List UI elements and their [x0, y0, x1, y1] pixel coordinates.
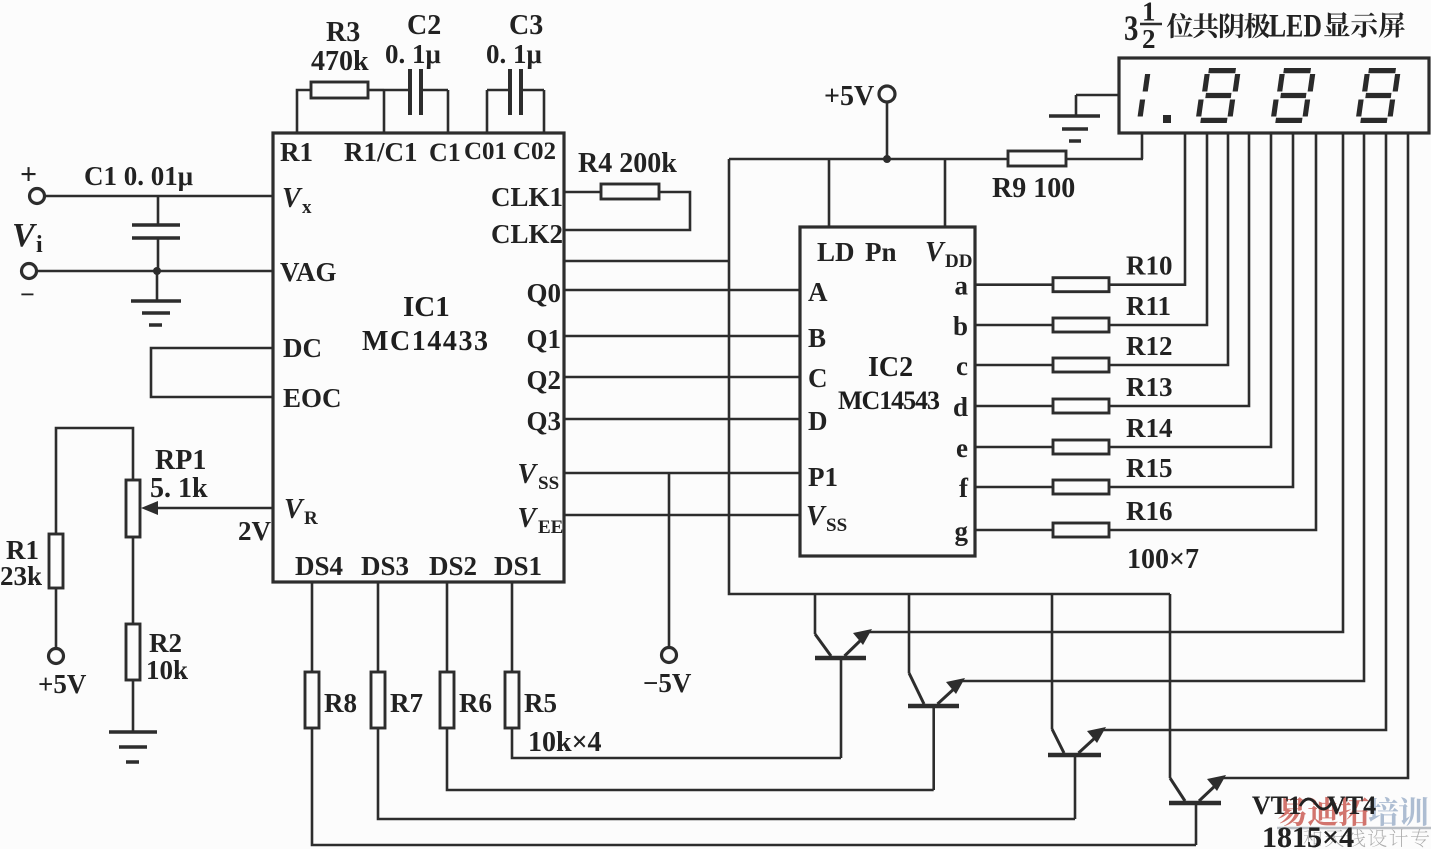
transistor Q1 VT1 — [815, 594, 872, 758]
svg-text:P1: P1 — [808, 462, 838, 492]
terminal + (Vi positive) — [20, 158, 45, 204]
svg-text:DS1: DS1 — [494, 551, 542, 581]
svg-text:C2: C2 — [407, 10, 441, 41]
node Vi — [12, 217, 43, 258]
wire — [729, 159, 1170, 594]
terminal +5V — [824, 81, 895, 159]
svg-text:e: e — [956, 433, 968, 463]
svg-text:VT1: VT1 — [1252, 791, 1301, 820]
svg-text:RP1: RP1 — [155, 445, 206, 476]
wire — [962, 133, 1364, 681]
svg-text:R8: R8 — [324, 688, 357, 718]
svg-text:R15: R15 — [1126, 453, 1173, 483]
svg-text:R: R — [304, 508, 318, 529]
potentiometer RP1 — [126, 445, 208, 624]
label VT1~VT4 — [1252, 791, 1376, 820]
junction — [153, 267, 161, 275]
svg-text:VAG: VAG — [280, 257, 337, 287]
svg-text:V: V — [282, 183, 303, 214]
svg-text:+5V: +5V — [824, 81, 874, 112]
svg-text:MC14433: MC14433 — [362, 326, 488, 357]
svg-text:C1: C1 — [429, 138, 461, 167]
svg-text:d: d — [953, 392, 968, 422]
resistor R11 — [975, 133, 1207, 332]
svg-text:1: 1 — [1142, 0, 1156, 27]
terminal − (Vi negative) — [20, 264, 37, 310]
wire — [944, 159, 947, 227]
svg-text:−: − — [20, 280, 35, 309]
svg-text:SS: SS — [826, 515, 847, 536]
wire — [564, 260, 729, 263]
resistor R10 — [975, 133, 1185, 292]
svg-text:R3: R3 — [326, 17, 360, 48]
wire — [564, 418, 800, 421]
svg-text:3: 3 — [1124, 9, 1138, 49]
label VT1~VT4 — [1252, 791, 1376, 820]
svg-text:100×7: 100×7 — [1127, 544, 1199, 575]
wire — [564, 376, 800, 379]
wire — [151, 348, 273, 397]
svg-text:c: c — [956, 351, 968, 381]
svg-text:470k: 470k — [311, 46, 369, 77]
svg-text:CLK1: CLK1 — [491, 182, 563, 212]
resistor R14 — [975, 133, 1271, 454]
wire — [141, 501, 273, 546]
wire — [729, 158, 1008, 161]
svg-text:f: f — [959, 473, 969, 503]
svg-text:IC1: IC1 — [403, 291, 450, 323]
resistor R6 — [440, 582, 934, 790]
wire — [564, 472, 800, 475]
svg-text:DC: DC — [283, 333, 322, 363]
svg-text:R1/C1: R1/C1 — [344, 137, 418, 167]
svg-text:V: V — [517, 459, 538, 490]
svg-text:R4 200k: R4 200k — [578, 148, 677, 179]
svg-text:R11: R11 — [1126, 291, 1171, 321]
svg-text:MC14543: MC14543 — [838, 386, 940, 415]
resistor R12 — [975, 133, 1228, 372]
wire — [1103, 133, 1386, 730]
resistor R13 — [975, 133, 1249, 413]
svg-text:C02: C02 — [513, 138, 556, 165]
ground — [131, 271, 181, 325]
wire — [564, 335, 800, 338]
svg-text:−5V: −5V — [643, 668, 692, 698]
svg-text:EE: EE — [538, 517, 563, 538]
wire — [564, 289, 800, 292]
display LED 1.888 — [1119, 58, 1429, 133]
svg-text:Q3: Q3 — [526, 406, 561, 436]
label display title — [1124, 0, 1405, 54]
svg-text:DS2: DS2 — [429, 551, 477, 581]
svg-text:1815×4: 1815×4 — [1262, 821, 1354, 849]
resistor R15 — [975, 133, 1293, 494]
terminal +5V — [38, 649, 87, 700]
terminal −5V — [643, 473, 692, 698]
svg-text:V: V — [806, 501, 827, 532]
svg-text:10k×4: 10k×4 — [528, 727, 602, 758]
label 1815×4 — [1262, 821, 1354, 849]
wire — [869, 133, 1343, 632]
wire — [56, 428, 133, 534]
svg-text:C01: C01 — [464, 138, 507, 165]
svg-text:0. 1μ: 0. 1μ — [486, 39, 542, 69]
svg-text:DS3: DS3 — [361, 551, 409, 581]
capacitor C1 — [84, 161, 193, 271]
svg-text:g: g — [955, 516, 969, 546]
junction — [883, 155, 891, 163]
capacitor C2 — [384, 10, 448, 133]
svg-text:V: V — [284, 494, 305, 525]
label 10k×4 — [528, 727, 602, 758]
svg-text:B: B — [808, 323, 826, 353]
svg-text:IC2: IC2 — [868, 352, 913, 383]
svg-text:R1: R1 — [280, 137, 313, 167]
wire — [44, 195, 273, 198]
svg-text:R6: R6 — [459, 688, 492, 718]
ground — [1049, 95, 1119, 141]
svg-text:VT4: VT4 — [1327, 791, 1376, 820]
transistor Q3 VT3 — [1048, 594, 1106, 819]
resistor R4 — [564, 148, 690, 230]
svg-text:C1 0. 01μ: C1 0. 01μ — [84, 161, 193, 191]
resistor R1 — [0, 534, 63, 649]
wire — [1141, 133, 1144, 159]
svg-text:Q2: Q2 — [526, 365, 561, 395]
svg-text:SS: SS — [538, 473, 559, 494]
svg-text:V: V — [12, 217, 37, 254]
label 100×7 — [1127, 544, 1199, 575]
svg-text:C: C — [808, 363, 828, 393]
wire — [564, 514, 800, 517]
svg-text:R16: R16 — [1126, 496, 1173, 526]
wire — [1223, 133, 1408, 778]
svg-text:2: 2 — [1142, 24, 1156, 54]
watermark — [1277, 797, 1431, 848]
svg-text:R10: R10 — [1126, 251, 1173, 281]
capacitor C3 — [486, 10, 544, 133]
svg-text:R12: R12 — [1126, 331, 1173, 361]
svg-text:R13: R13 — [1126, 372, 1173, 402]
svg-text:+5V: +5V — [38, 669, 87, 699]
svg-text:LED: LED — [1269, 9, 1322, 45]
svg-text:R2: R2 — [149, 628, 182, 658]
svg-text:A: A — [808, 277, 828, 307]
label 1815×4 — [1262, 821, 1354, 849]
svg-text:b: b — [953, 311, 968, 341]
svg-text:0. 1μ: 0. 1μ — [385, 39, 441, 69]
svg-text:R9 100: R9 100 — [992, 173, 1075, 204]
svg-text:x: x — [302, 197, 312, 218]
svg-text:5. 1k: 5. 1k — [150, 473, 208, 504]
svg-text:10k: 10k — [146, 655, 188, 685]
svg-text:a: a — [955, 271, 969, 301]
resistor R2 — [126, 624, 188, 732]
svg-text:2V: 2V — [238, 516, 272, 546]
svg-text:DS4: DS4 — [295, 551, 343, 581]
op-amp U2 IC2 MC14543 — [800, 227, 975, 556]
svg-text:V: V — [517, 503, 538, 534]
resistor R5 — [505, 582, 841, 758]
svg-text:i: i — [36, 232, 43, 258]
svg-text:DD: DD — [945, 251, 972, 272]
transistor Q2 VT2 — [908, 594, 965, 790]
resistor R9 — [992, 151, 1143, 204]
resistor R3 — [297, 17, 384, 133]
svg-text:EOC: EOC — [283, 383, 342, 413]
op-amp U1 IC1 MC14433 — [273, 133, 564, 582]
svg-text:23k: 23k — [0, 561, 42, 591]
resistor R7 — [371, 582, 1075, 819]
svg-text:V: V — [925, 237, 946, 268]
svg-text:R7: R7 — [390, 688, 423, 718]
svg-text:+: + — [20, 158, 37, 191]
svg-text:C3: C3 — [509, 10, 543, 41]
ground — [109, 732, 157, 762]
wire — [828, 159, 831, 227]
svg-text:R5: R5 — [524, 688, 557, 718]
svg-text:R14: R14 — [1126, 413, 1173, 443]
wire — [36, 270, 273, 273]
svg-text:Q0: Q0 — [526, 278, 561, 308]
resistor R16 — [975, 133, 1316, 537]
svg-text:Q1: Q1 — [526, 324, 561, 354]
transistor Q4 VT4 — [1169, 594, 1226, 845]
svg-text:Pn: Pn — [865, 237, 897, 267]
svg-text:D: D — [808, 406, 828, 436]
svg-text:LD: LD — [817, 237, 855, 267]
svg-text:CLK2: CLK2 — [491, 219, 563, 249]
resistor R8 — [305, 582, 1196, 845]
